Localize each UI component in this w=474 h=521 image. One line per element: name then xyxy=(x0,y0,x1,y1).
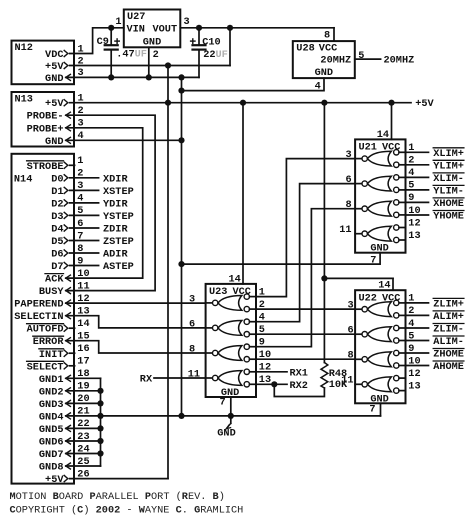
stub N14 pin 17 xyxy=(70,365,75,367)
svg-text:5: 5 xyxy=(77,205,83,217)
wire ground comb vertical xyxy=(100,378,102,466)
svg-text:9: 9 xyxy=(408,343,414,355)
svg-text:VCC: VCC xyxy=(319,43,337,55)
svg-text:7: 7 xyxy=(369,404,375,416)
svg-text:16: 16 xyxy=(77,343,89,355)
wire U22 pin 3 to U23 pin 2 xyxy=(256,308,355,310)
wire U22 input xyxy=(406,327,429,329)
wire D4 to net label xyxy=(70,227,99,229)
svg-text:GND7: GND7 xyxy=(39,449,64,461)
wire C10 bottom lead xyxy=(198,50,200,78)
svg-text:17: 17 xyxy=(77,356,89,368)
junction xyxy=(97,388,103,394)
svg-text:N12: N12 xyxy=(15,42,33,54)
svg-text:XLIM+: XLIM+ xyxy=(433,148,464,160)
net label ZLIM+ xyxy=(433,298,464,310)
svg-text:.47: .47 xyxy=(116,49,134,61)
svg-text:U28: U28 xyxy=(296,43,314,55)
svg-text:ZLIM-: ZLIM- xyxy=(433,324,464,336)
wire U22 input xyxy=(406,365,429,367)
wire U28 pin 5 20MHZ output xyxy=(355,58,381,60)
svg-text:3: 3 xyxy=(78,118,84,130)
N14 pin 21 arrow xyxy=(66,413,71,419)
svg-text:PROBE-: PROBE- xyxy=(27,111,64,123)
svg-text:XDIR: XDIR xyxy=(103,173,128,185)
svg-text:XLIM-: XLIM- xyxy=(433,173,464,185)
wire D5 to net label xyxy=(70,240,99,242)
svg-text:ACK: ACK xyxy=(45,274,64,286)
svg-text:2: 2 xyxy=(408,155,414,167)
N13 pin 1 chevron xyxy=(64,100,68,106)
wire PROBE- to BUSY xyxy=(66,115,155,290)
svg-text:D7: D7 xyxy=(51,261,63,273)
svg-text:GND5: GND5 xyxy=(39,424,64,436)
svg-text:20MHZ: 20MHZ xyxy=(384,55,415,67)
net label AHOME xyxy=(433,361,464,373)
svg-text:4: 4 xyxy=(315,80,321,92)
svg-text:7: 7 xyxy=(77,230,83,242)
N14 pin name STROBE xyxy=(27,161,64,173)
wire PROBE+ to ACK xyxy=(66,128,143,278)
svg-text:10: 10 xyxy=(408,205,420,217)
junction xyxy=(388,100,394,106)
inverter-gate IC U22 gate D xyxy=(355,375,405,393)
svg-text:3: 3 xyxy=(77,180,83,192)
svg-text:2: 2 xyxy=(78,55,84,67)
N14 pin 3 chevron xyxy=(64,187,68,193)
wire SELECTIN to U23 pin 6 xyxy=(66,316,206,328)
svg-text:GND: GND xyxy=(315,67,333,79)
wire C9 bottom lead xyxy=(110,50,112,78)
svg-text:VOUT: VOUT xyxy=(153,23,178,35)
stub N14 pin 16 xyxy=(70,352,75,354)
wire GND6 row xyxy=(66,440,101,442)
inverter-gate IC U23 gate A xyxy=(206,294,256,312)
capacitor C9 symbol xyxy=(105,39,120,50)
svg-text:GND2: GND2 xyxy=(39,386,64,398)
svg-text:GND: GND xyxy=(45,136,63,148)
inverter-gate IC U21 xyxy=(355,139,405,252)
svg-text:6: 6 xyxy=(189,318,195,330)
junction xyxy=(108,74,114,80)
wire +5V drop to R48 xyxy=(323,103,325,363)
net label XLIM+ xyxy=(433,148,464,160)
svg-text:1: 1 xyxy=(408,293,414,305)
svg-text:BUSY: BUSY xyxy=(39,286,64,298)
wire U22 input xyxy=(406,302,429,304)
svg-text:5: 5 xyxy=(408,330,414,342)
svg-text:9: 9 xyxy=(77,255,83,267)
svg-text:5: 5 xyxy=(259,324,265,336)
svg-text:U27: U27 xyxy=(127,11,145,23)
svg-text:GND: GND xyxy=(143,36,161,48)
svg-text:7: 7 xyxy=(370,254,376,266)
svg-text:VDC: VDC xyxy=(45,49,63,61)
svg-text:21: 21 xyxy=(77,406,89,418)
svg-text:12: 12 xyxy=(408,368,420,380)
svg-text:10: 10 xyxy=(259,349,271,361)
svg-text:9: 9 xyxy=(259,337,265,349)
svg-text:11: 11 xyxy=(188,368,200,380)
wire D0 to net label xyxy=(70,177,99,179)
junction xyxy=(165,100,171,106)
svg-text:C9: C9 xyxy=(97,36,109,48)
wire U23 pin 7 ground stub xyxy=(230,397,232,416)
N14 pin 23 arrow xyxy=(66,438,71,444)
svg-text:+5V: +5V xyxy=(45,474,64,486)
junction xyxy=(178,74,184,80)
wire D6 to net label xyxy=(70,252,99,254)
svg-text:1: 1 xyxy=(77,155,83,167)
svg-text:YLIM-: YLIM- xyxy=(433,185,464,197)
svg-text:GND8: GND8 xyxy=(39,462,64,474)
inverter-gate IC U23 gate B xyxy=(206,319,256,337)
wire U27 GND pin 2 drop xyxy=(148,47,150,77)
svg-text:12: 12 xyxy=(259,362,271,374)
svg-text:22: 22 xyxy=(77,418,89,430)
svg-text:13: 13 xyxy=(408,230,420,242)
wire U22 pin 6 to U23 pin 5 xyxy=(256,333,355,335)
svg-text:ASTEP: ASTEP xyxy=(103,261,134,273)
net label YLIM+ xyxy=(433,160,464,172)
N12 pin 2 output chevron xyxy=(64,62,68,68)
N14 pin 22 arrow xyxy=(66,425,71,431)
wire U22 input xyxy=(406,314,429,316)
net label ALIM- xyxy=(433,336,464,348)
svg-text:VIN: VIN xyxy=(127,23,145,35)
svg-text:13: 13 xyxy=(259,374,271,386)
junction xyxy=(178,413,184,419)
oscillator U28 xyxy=(293,41,355,78)
svg-text:YSTEP: YSTEP xyxy=(103,211,134,223)
svg-text:UF: UF xyxy=(216,49,228,61)
svg-text:11: 11 xyxy=(339,224,351,236)
svg-text:U22: U22 xyxy=(359,293,377,305)
wire U21 pin 8 to U23 pin 9 xyxy=(256,209,355,347)
connector N14 xyxy=(12,154,75,484)
N14 pin 8 chevron xyxy=(64,250,68,256)
wire U22 input xyxy=(406,340,429,342)
svg-text:D4: D4 xyxy=(51,224,63,236)
wire +5V vertical net xyxy=(167,66,169,479)
svg-text:6: 6 xyxy=(345,174,351,186)
N14 pin 6 chevron xyxy=(64,225,68,231)
svg-text:8: 8 xyxy=(345,199,351,211)
N14 pin 17 chevron xyxy=(64,363,68,369)
svg-text:XHOME: XHOME xyxy=(433,198,464,210)
N13 pin 4 arrow xyxy=(66,137,71,143)
wire C9 top lead xyxy=(110,28,112,45)
svg-text:PAPEREND: PAPEREND xyxy=(14,299,63,311)
svg-text:PROBE+: PROBE+ xyxy=(27,123,64,135)
ground symbol xyxy=(217,416,235,440)
svg-text:20: 20 xyxy=(77,393,89,405)
N14 pin 5 chevron xyxy=(64,212,68,218)
inverter-gate IC U23 gate D xyxy=(206,369,256,387)
svg-text:GND: GND xyxy=(370,243,388,255)
wire PAPEREND to U23 pin 3 xyxy=(66,302,206,304)
junction xyxy=(97,438,103,444)
wire U21 pin 3 to U23 pin 1 xyxy=(256,159,355,297)
N14 pin name SELECT xyxy=(27,361,64,373)
svg-text:3: 3 xyxy=(347,300,353,312)
svg-text:D6: D6 xyxy=(51,249,63,261)
svg-text:D2: D2 xyxy=(51,198,63,210)
svg-text:ZLIM+: ZLIM+ xyxy=(433,298,464,310)
junction xyxy=(178,88,184,94)
junction xyxy=(271,381,277,387)
wire U28 pin 8 VCC drop xyxy=(333,28,335,41)
svg-text:1: 1 xyxy=(408,142,414,154)
svg-text:ZSTEP: ZSTEP xyxy=(103,236,134,248)
svg-text:INIT: INIT xyxy=(39,349,64,361)
wire R48 bottom to RX2 node xyxy=(274,384,324,396)
svg-text:14: 14 xyxy=(377,129,389,141)
svg-text:STROBE: STROBE xyxy=(27,161,64,173)
N14 pin 11 arrow xyxy=(66,288,71,294)
net label ZHOME xyxy=(433,349,464,361)
wire U21 input xyxy=(406,164,429,166)
svg-text:10: 10 xyxy=(408,355,420,367)
junction xyxy=(97,450,103,456)
svg-text:1: 1 xyxy=(259,286,265,298)
svg-text:3: 3 xyxy=(78,67,84,79)
svg-text:+5V: +5V xyxy=(415,98,434,110)
svg-text:4: 4 xyxy=(77,193,83,205)
svg-text:3: 3 xyxy=(184,16,190,28)
svg-text:9: 9 xyxy=(408,192,414,204)
svg-text:3: 3 xyxy=(189,293,195,305)
net label XLIM- xyxy=(433,173,464,185)
regulator U27 xyxy=(124,10,181,48)
svg-text:ZDIR: ZDIR xyxy=(103,224,128,236)
svg-text:RX1: RX1 xyxy=(290,367,308,379)
svg-text:26: 26 xyxy=(77,468,89,480)
svg-text:YHOME: YHOME xyxy=(433,211,464,223)
wire U21 input xyxy=(406,201,429,203)
wire U21 pin 7 to ground net xyxy=(182,253,381,264)
wire N13 GND pin 4 to ground net xyxy=(66,139,182,141)
N14 pin name AUTOFD xyxy=(27,324,64,336)
net label XHOME xyxy=(433,198,464,210)
svg-text:SELECTIN: SELECTIN xyxy=(14,311,63,323)
svg-text:D5: D5 xyxy=(51,236,63,248)
inverter-gate IC U22 gate A xyxy=(355,300,405,318)
N14 pin 9 chevron xyxy=(64,262,68,268)
inverter-gate IC U21 gate B xyxy=(355,175,405,193)
inverter-gate IC U22 gate B xyxy=(355,325,405,343)
wire ERROR to U23 pin 8 xyxy=(66,341,206,353)
wire U23 pin 13 to RX2 xyxy=(256,383,287,385)
junction xyxy=(196,25,202,31)
svg-text:19: 19 xyxy=(77,381,89,393)
N14 pin 10 arrow xyxy=(66,275,71,281)
N13 pin 3 arrow xyxy=(66,125,71,131)
svg-text:N14: N14 xyxy=(14,173,32,185)
wire VDC xyxy=(70,28,124,54)
N14 pin 15 arrow xyxy=(66,338,71,344)
N14 pin 4 chevron xyxy=(64,200,68,206)
svg-text:U23: U23 xyxy=(209,286,227,298)
junction xyxy=(321,275,327,281)
junction xyxy=(108,25,114,31)
svg-text:RX2: RX2 xyxy=(290,380,308,392)
svg-text:UF: UF xyxy=(135,49,147,61)
svg-text:13: 13 xyxy=(408,380,420,392)
svg-text:+5V: +5V xyxy=(45,98,64,110)
wire U21 input xyxy=(406,151,429,153)
svg-text:ZHOME: ZHOME xyxy=(433,349,464,361)
svg-text:2: 2 xyxy=(259,299,265,311)
wire +5V link to U22 pin 14 xyxy=(324,277,393,279)
svg-text:COPYRIGHT (C) 2002 - WAYNE C.: COPYRIGHT (C) 2002 - WAYNE C. GRAMLICH xyxy=(10,504,244,516)
N14 pin 14 chevron xyxy=(64,325,68,331)
N14 pin 25 arrow xyxy=(66,463,71,469)
svg-text:6: 6 xyxy=(77,218,83,230)
svg-text:1: 1 xyxy=(78,93,84,105)
capacitor C9 xyxy=(97,36,147,61)
svg-text:23: 23 xyxy=(77,431,89,443)
junction xyxy=(146,74,152,80)
wire GND3 row xyxy=(66,402,101,404)
stub N14 pin 14 xyxy=(70,327,75,329)
wire VOUT/+5V from U27 pin 3 to U28 pin 8 xyxy=(180,27,334,29)
wire U21 pin 6 to U23 pin 4 xyxy=(256,184,355,322)
N14 pin name INIT xyxy=(39,349,64,361)
wire C10 top lead xyxy=(198,28,200,45)
svg-text:11: 11 xyxy=(341,375,353,387)
wire RX net to U23 pin 11 xyxy=(154,377,206,379)
N14 pin 2 chevron xyxy=(64,175,68,181)
svg-text:GND: GND xyxy=(45,73,63,85)
wire U23 pin 12 to RX1 xyxy=(256,371,287,373)
net label YLIM- xyxy=(433,185,464,197)
N12 pin 1 output chevron xyxy=(64,50,68,56)
N14 pin 12 arrow xyxy=(66,300,71,306)
junction xyxy=(228,413,234,419)
junction xyxy=(97,400,103,406)
svg-text:13: 13 xyxy=(77,306,89,318)
N14 pin 20 arrow xyxy=(66,400,71,406)
junction xyxy=(227,25,233,31)
svg-text:RX: RX xyxy=(140,374,153,386)
N14 pin 24 arrow xyxy=(66,451,71,457)
svg-text:GND1: GND1 xyxy=(39,374,64,386)
svg-text:ERROR: ERROR xyxy=(33,336,65,348)
svg-text:+5V: +5V xyxy=(45,61,64,73)
svg-text:24: 24 xyxy=(77,443,89,455)
svg-text:11: 11 xyxy=(77,280,89,292)
inverter-gate IC U23 xyxy=(206,284,256,397)
svg-text:12: 12 xyxy=(77,293,89,305)
capacitor C10 symbol xyxy=(191,39,206,50)
N14 pin 26 chevron xyxy=(64,475,68,481)
wire N14 pin 26 +5V xyxy=(70,478,168,480)
svg-text:4: 4 xyxy=(78,130,84,142)
wire U22 input xyxy=(406,352,429,354)
inverter-gate IC U21 gate C xyxy=(355,200,405,218)
N14 pin 1 chevron xyxy=(64,162,68,168)
svg-text:4: 4 xyxy=(408,167,414,179)
svg-text:D3: D3 xyxy=(51,211,63,223)
svg-text:12: 12 xyxy=(408,217,420,229)
svg-text:GND: GND xyxy=(217,427,235,439)
svg-text:20MHZ: 20MHZ xyxy=(320,55,351,67)
wire U21 input xyxy=(406,176,429,178)
svg-text:GND3: GND3 xyxy=(39,399,64,411)
N14 pin 7 chevron xyxy=(64,237,68,243)
wire U21 input xyxy=(406,214,429,216)
wire GND7 row xyxy=(66,453,101,455)
wire U22 pin 8 to U23 pin 10 xyxy=(256,358,355,360)
junction xyxy=(97,425,103,431)
wire GND5 row xyxy=(66,427,101,429)
wire GND4 main ground line xyxy=(66,415,381,417)
svg-text:ADIR: ADIR xyxy=(103,249,128,261)
svg-text:8: 8 xyxy=(324,29,330,41)
wire D7 to net label xyxy=(70,265,99,267)
wire U21 pin 14 VCC riser xyxy=(391,103,393,140)
svg-text:14: 14 xyxy=(228,274,240,286)
svg-text:15: 15 xyxy=(77,331,89,343)
svg-text:AUTOFD: AUTOFD xyxy=(27,324,64,336)
svg-text:GND4: GND4 xyxy=(39,411,64,423)
junction xyxy=(240,100,246,106)
svg-text:2: 2 xyxy=(153,49,159,61)
svg-text:N13: N13 xyxy=(15,93,33,105)
svg-text:7: 7 xyxy=(219,397,225,409)
svg-text:14: 14 xyxy=(378,280,390,292)
svg-text:6: 6 xyxy=(347,325,353,337)
svg-text:SELECT: SELECT xyxy=(27,361,64,373)
svg-text:D1: D1 xyxy=(51,186,63,198)
svg-text:18: 18 xyxy=(77,368,89,380)
svg-text:25: 25 xyxy=(77,456,89,468)
wire U22 pin 14 VCC riser xyxy=(392,278,394,290)
svg-text:2: 2 xyxy=(77,168,83,180)
svg-text:2: 2 xyxy=(78,105,84,117)
inverter-gate IC U21 gate D xyxy=(355,225,405,243)
wire +5V bus riser to VOUT line xyxy=(229,28,231,66)
wire D2 to net label xyxy=(70,202,99,204)
svg-text:YDIR: YDIR xyxy=(103,198,128,210)
wire +5V bus from N12 pin 2 xyxy=(70,65,230,67)
svg-text:U21: U21 xyxy=(359,142,377,154)
N14 pin 18 arrow xyxy=(66,375,71,381)
wire U22 pin 7 ground stub xyxy=(380,403,382,416)
capacitor C10 xyxy=(191,36,228,61)
N12 pin 3 input arrow xyxy=(66,74,71,80)
N14 pin 16 chevron xyxy=(64,350,68,356)
svg-text:10: 10 xyxy=(77,268,89,280)
junction xyxy=(178,261,184,267)
svg-text:1: 1 xyxy=(78,43,84,55)
net label YHOME xyxy=(433,211,464,223)
wire U28 GND pin 4 to ground net xyxy=(182,78,325,91)
N14 pin name ERROR xyxy=(33,336,65,348)
wire GND vertical net xyxy=(181,77,183,416)
svg-text:MOTION BOARD PARALLEL PORT (RE: MOTION BOARD PARALLEL PORT (REV. B) xyxy=(10,491,225,503)
svg-text:8: 8 xyxy=(347,350,353,362)
svg-text:ALIM-: ALIM- xyxy=(433,336,464,348)
wire D1 to net label xyxy=(70,189,99,191)
wire U21 input xyxy=(406,189,429,191)
svg-text:1: 1 xyxy=(115,16,121,28)
svg-text:4: 4 xyxy=(259,312,265,324)
net label ZLIM- xyxy=(433,324,464,336)
svg-text:5: 5 xyxy=(408,180,414,192)
svg-text:AHOME: AHOME xyxy=(433,361,464,373)
